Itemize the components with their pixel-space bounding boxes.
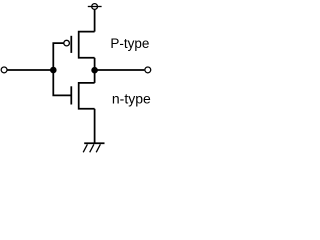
- transistor Q2 NMOS: [71, 83, 94, 109]
- node output junction: [91, 67, 98, 74]
- svg-text:P-type: P-type: [110, 36, 149, 51]
- wire output node to NMOS drain: [94, 70, 96, 83]
- input terminal: [1, 67, 7, 73]
- wire output: [95, 69, 145, 71]
- ground: [83, 143, 104, 152]
- output terminal: [145, 67, 151, 73]
- transistor Q1 PMOS: [64, 32, 95, 58]
- wire NMOS source to ground: [94, 109, 96, 144]
- wire PMOS drain to output node: [94, 58, 96, 70]
- wire VDD to PMOS source: [94, 10, 96, 32]
- wire input: [7, 69, 53, 71]
- wire input node to NMOS gate: [53, 70, 71, 95]
- wire input node to PMOS gate: [53, 43, 64, 70]
- svg-text:n-type: n-type: [112, 91, 151, 107]
- power supply terminal VDD: [88, 4, 102, 10]
- node input junction: [50, 67, 57, 74]
